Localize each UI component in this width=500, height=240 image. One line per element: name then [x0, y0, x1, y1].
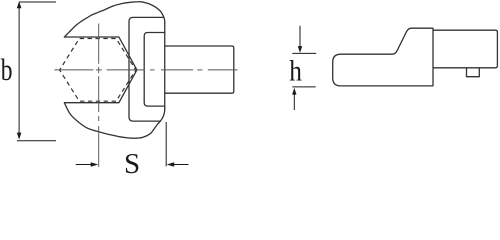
h up arrowhead — [292, 88, 296, 95]
S right extension line — [165, 122, 167, 166]
side view outline — [333, 28, 498, 86]
h up-arrow shaft — [293, 94, 295, 110]
h dimension — [292, 26, 316, 110]
wrench head right vertical edge — [164, 24, 166, 109]
catch tab — [467, 68, 480, 77]
S right arrow tail — [174, 164, 189, 166]
b bottom arrowhead — [17, 133, 22, 140]
svg-text:S: S — [124, 148, 140, 175]
b bottom extension line — [17, 140, 56, 142]
h top extension line — [292, 52, 316, 54]
b dimension line — [18, 7, 20, 135]
wrench head outer outline top arc — [64, 2, 164, 37]
h down arrowhead — [298, 46, 302, 53]
wrench head outer outline bottom arc — [64, 103, 164, 139]
S left arrow tail — [76, 164, 92, 166]
shaft stub — [165, 46, 234, 93]
horizontal centerline — [54, 69, 237, 71]
b top arrowhead — [17, 1, 22, 8]
S right arrowhead — [167, 162, 175, 167]
svg-text:h: h — [289, 54, 302, 87]
S dimension — [76, 122, 189, 166]
jaw mouth: top face, root V, bottom face — [64, 37, 136, 103]
side view body outline — [333, 28, 433, 86]
inner rounded frame open to the right — [144, 33, 165, 107]
svg-text:b: b — [1, 53, 13, 87]
S left arrowhead — [91, 162, 99, 167]
vertical centerline (also S extension) — [98, 24, 100, 168]
middle rounded frame (plug seat) open to the right — [129, 17, 163, 121]
b top extension line — [19, 1, 56, 3]
h down-arrow shaft — [299, 26, 301, 47]
b dimension — [17, 2, 56, 141]
h bottom extension line — [292, 86, 315, 88]
hexagon (dashed, across flats) — [60, 39, 136, 102]
side view plug (tang) — [433, 30, 497, 68]
